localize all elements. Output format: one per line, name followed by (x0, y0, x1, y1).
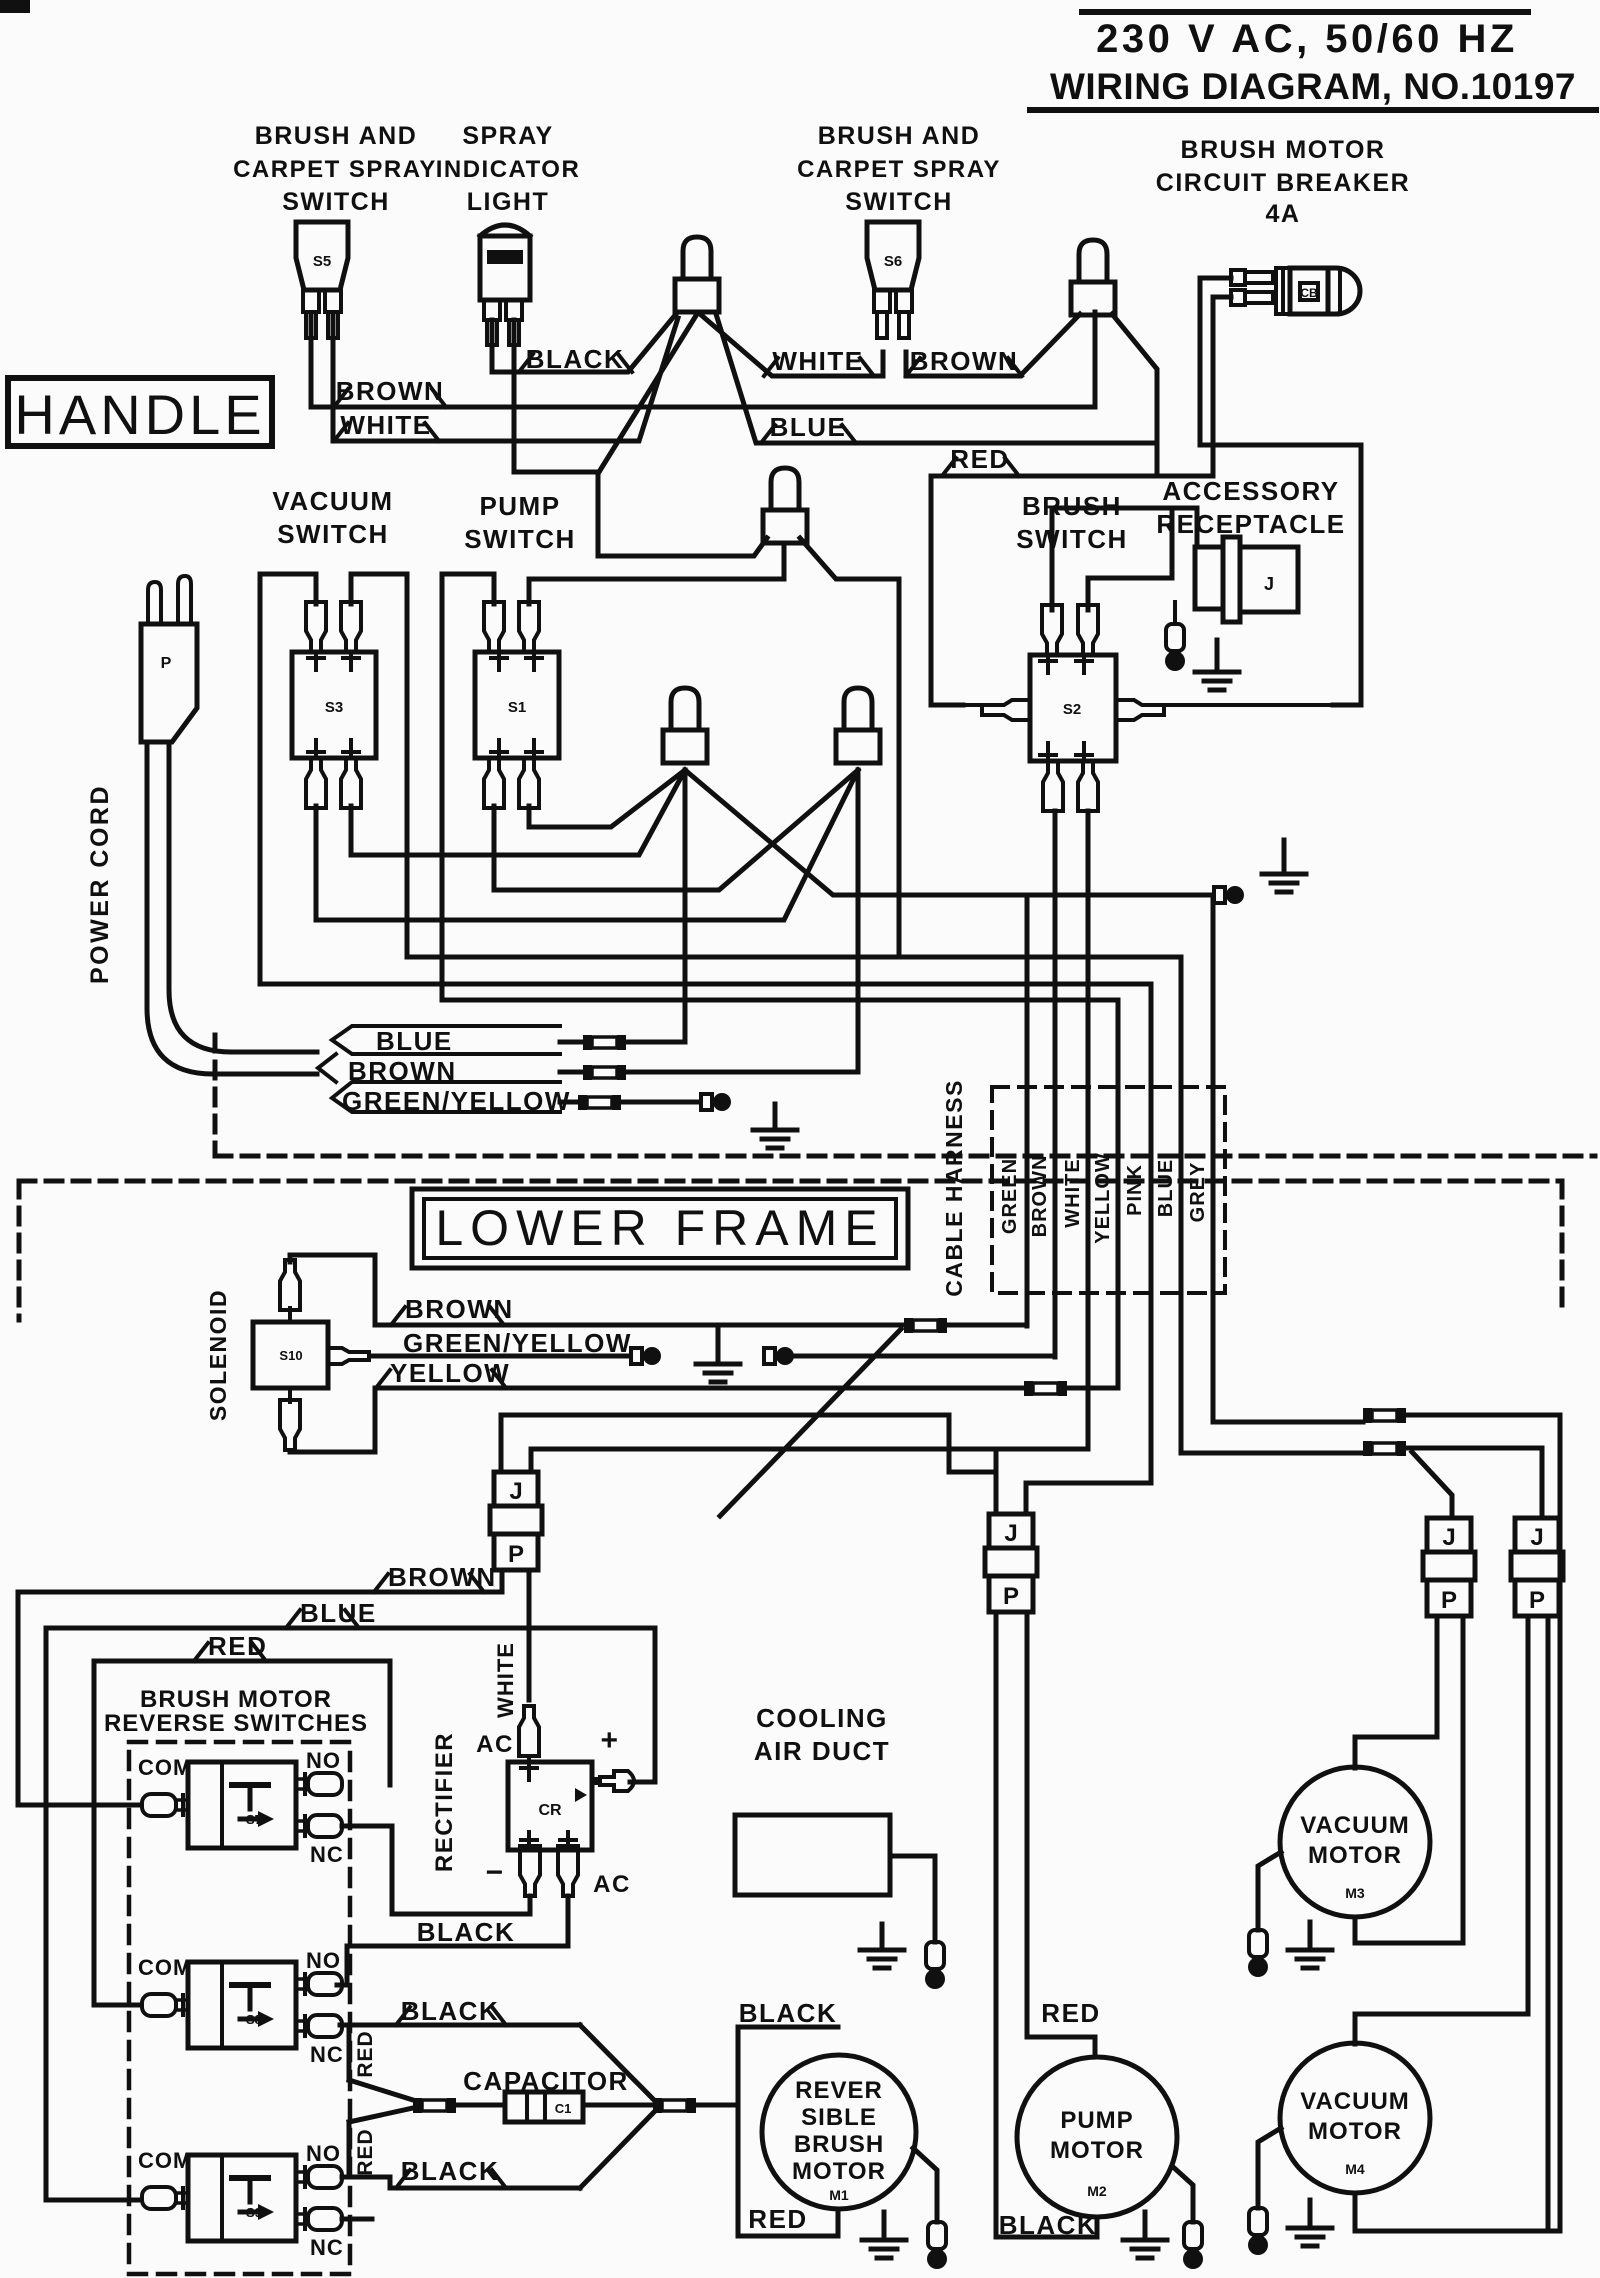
wire S2 bottom-left = BROWN harness (1053, 811, 1058, 1357)
bulb connector 4 (671, 688, 699, 730)
wire S9 NO black+red (342, 2177, 580, 2188)
label ticks BROWN left (334, 389, 348, 407)
svg-text:BROWN: BROWN (348, 1056, 457, 1086)
svg-text:J: J (1264, 574, 1274, 594)
wire M3 left lead (1258, 1852, 1281, 1930)
ground M4 (1308, 2200, 1313, 2228)
connector JP3 vacuum M3 (1427, 1518, 1471, 1552)
wire plus to blue (630, 1780, 655, 1785)
S1 bottom connectors (484, 758, 504, 808)
svg-text:J: J (1442, 1524, 1455, 1551)
svg-text:CB: CB (1300, 286, 1318, 300)
wire S2 bottom-right = WHITE harness (1086, 811, 1091, 1449)
svg-text:−: − (485, 1856, 504, 1889)
label ticks WHITE mid (764, 358, 778, 376)
svg-text:BLUE: BLUE (376, 1026, 453, 1056)
switch S8 reverse (188, 1962, 296, 2048)
wire brown rail (18, 1592, 502, 1805)
svg-text:BLUE: BLUE (770, 412, 847, 442)
svg-text:AC: AC (476, 1731, 514, 1758)
S3 bottom connectors (306, 758, 326, 808)
power plug P (141, 624, 197, 742)
switch S6 brush and carpet spray (867, 222, 919, 290)
svg-text:GREEN/YELLOW: GREEN/YELLOW (342, 1086, 571, 1116)
wire PINK vertical (1026, 984, 1151, 1514)
lug green/yellow (701, 1094, 712, 1110)
svg-text:BRUSH AND: BRUSH AND (818, 122, 981, 150)
wire JP2-P red down (1027, 1617, 1095, 2057)
svg-text:SOLENOID: SOLENOID (205, 1289, 231, 1421)
wire S1TL enclosure (442, 574, 1118, 1000)
wire black: indicator to bulb1 (492, 314, 676, 372)
svg-text:J: J (1530, 1524, 1543, 1551)
wire BLUE vertical (1181, 957, 1363, 1453)
wire M1 right lead (913, 2148, 937, 2222)
ground M1 (882, 2212, 887, 2240)
ground M2 (1143, 2212, 1148, 2240)
wire bus S3R-bulb4 (351, 770, 685, 855)
label ticks BROWN jp1 (374, 1574, 388, 1592)
svg-text:RED: RED (950, 444, 1009, 474)
wire bulb1 4th tap (599, 314, 697, 472)
switch S3 vacuum (292, 652, 376, 758)
wire bus S1R-bulb4 (529, 770, 685, 827)
lug on bus 895 (1214, 887, 1225, 903)
wire brown: S5 left to bulb2 base (311, 312, 1095, 407)
wire solenoid brown (290, 1255, 904, 1325)
svg-text:BLACK: BLACK (401, 1996, 500, 2026)
solenoid S10 box (253, 1322, 328, 1388)
svg-text:GREY: GREY (1187, 1162, 1209, 1223)
wire JP3-P right to M3 bottom (1355, 1616, 1463, 1943)
switch S9 reverse (188, 2155, 296, 2241)
svg-text:INDICATOR: INDICATOR (436, 156, 581, 183)
svg-text:BLUE: BLUE (1155, 1159, 1177, 1217)
connector JP4 vacuum M4 (1515, 1518, 1559, 1552)
wire S3TR enclosure (351, 574, 1181, 957)
svg-text:BLACK: BLACK (401, 2156, 500, 2186)
svg-text:RED: RED (208, 1631, 267, 1661)
lug green/yellow mid (631, 1348, 642, 1364)
title overline (1082, 9, 1528, 15)
svg-text:M3: M3 (1345, 1885, 1365, 1901)
switch S5 brush and carpet spray (296, 222, 348, 290)
wire duct (890, 1856, 935, 1942)
svg-text:BLACK: BLACK (417, 1917, 516, 1947)
wire JP1 right pin (531, 1449, 1088, 1472)
svg-text:S6: S6 (884, 253, 902, 270)
wire solenoid green/yellow (370, 1354, 630, 1359)
wire white: S5 right to bulb1 (333, 316, 678, 441)
svg-text:SIBLE: SIBLE (801, 2104, 877, 2131)
S1 top connectors (484, 602, 504, 652)
switch S7 reverse (188, 1762, 296, 1848)
svg-text:YELLOW: YELLOW (1092, 1152, 1114, 1244)
svg-text:230 V AC, 50/60 HZ: 230 V AC, 50/60 HZ (1096, 17, 1518, 61)
svg-text:WIRING DIAGRAM, NO.10197: WIRING DIAGRAM, NO.10197 (1050, 66, 1576, 107)
wire red to S7 NO (388, 1661, 393, 1785)
wire bulb3 right diag (800, 538, 899, 957)
capacitor C1 body (505, 2092, 583, 2122)
splice on brown (904, 1318, 913, 1333)
svg-text:RED: RED (748, 2204, 807, 2234)
svg-text:MOTOR: MOTOR (1308, 1842, 1402, 1869)
svg-text:CARPET SPRAY: CARPET SPRAY (797, 156, 1001, 183)
wire blue harness (560, 1040, 583, 1045)
dashed handle boundary vertical (213, 1035, 218, 1156)
motor M3 vacuum (1280, 1767, 1430, 1917)
splice cap left (413, 2098, 422, 2113)
svg-text:4A: 4A (1266, 200, 1301, 228)
svg-text:RED: RED (354, 2030, 377, 2077)
svg-text:J: J (1004, 1520, 1017, 1547)
bullet M1 (928, 2222, 946, 2249)
splice right upper (1363, 1408, 1372, 1423)
svg-text:BROWN: BROWN (336, 376, 445, 406)
wire white2: bulb1 to S6 left (700, 314, 883, 376)
wire M2 right lead (1172, 2166, 1193, 2222)
svg-text:P: P (1441, 1587, 1457, 1614)
dashed lower frame right (1560, 1181, 1565, 1310)
splice right lower (1363, 1441, 1372, 1456)
wire S2 right pin up (1088, 508, 1172, 610)
wire JP1-P white down (527, 1570, 532, 1700)
connector JP1 solenoid-line (494, 1472, 538, 1506)
svg-text:VACUUM: VACUUM (1300, 2088, 1410, 2115)
wire JP4-P left to M4 top (1355, 1616, 1528, 2044)
svg-text:AIR DUCT: AIR DUCT (754, 1736, 890, 1766)
bullet M4 (1249, 2208, 1267, 2235)
wire CB bottom to red junction (1157, 297, 1231, 476)
bulb connector 5 (844, 688, 872, 730)
wire YELLOW vertical (1116, 1000, 1121, 1387)
wire S9 NC stub (342, 2217, 372, 2222)
svg-text:SWITCH: SWITCH (1016, 524, 1128, 554)
svg-text:NC: NC (310, 1842, 344, 1867)
svg-text:AC: AC (593, 1871, 631, 1898)
svg-text:REVER: REVER (795, 2077, 883, 2104)
svg-text:BRUSH MOTOR: BRUSH MOTOR (1181, 136, 1386, 164)
svg-text:P: P (161, 655, 172, 672)
wire S1TR to bulb3 (529, 545, 784, 604)
ground M3 (1308, 1922, 1313, 1950)
wire bulb5 down to brown splice (856, 770, 861, 1072)
label ticks BLACK s9 (396, 2170, 410, 2188)
HANDLE box (8, 378, 272, 446)
label ticks BLACK top (519, 354, 533, 372)
circuit breaker CB (1231, 270, 1273, 285)
svg-text:REVERSE SWITCHES: REVERSE SWITCHES (104, 1710, 368, 1737)
svg-text:P: P (1003, 1583, 1019, 1610)
svg-text:VACUUM: VACUUM (272, 486, 393, 516)
wire blue rail (46, 1628, 655, 2200)
splice brown (583, 1065, 592, 1080)
wire M4 left lead (1258, 2128, 1281, 2208)
svg-text:WHITE: WHITE (1062, 1158, 1084, 1227)
bulb connector 2 (1079, 240, 1107, 282)
motor M1 reversible brush (762, 2055, 916, 2209)
splice green/yellow (578, 1095, 587, 1110)
svg-text:CIRCUIT BREAKER: CIRCUIT BREAKER (1156, 169, 1410, 197)
wire cap to M1 (697, 2103, 738, 2108)
svg-text:S10: S10 (279, 1348, 302, 1363)
svg-text:S2: S2 (1063, 701, 1081, 718)
svg-text:COM: COM (138, 1955, 192, 1980)
wire M1 staple (738, 2027, 838, 2105)
wire S8 NO to AC (337, 1946, 347, 1985)
wire red: bulb2 down to brush-switch box (931, 314, 1157, 705)
wire brown2: S6 right to bulb2 (906, 314, 1080, 376)
svg-text:PUMP: PUMP (1060, 2107, 1133, 2134)
ground floating right (1282, 840, 1287, 874)
wire blue to rectifier plus (653, 1628, 658, 1782)
svg-text:BROWN: BROWN (910, 346, 1019, 376)
ground harness (773, 1104, 778, 1130)
label ticks RED rail (194, 1643, 208, 1661)
svg-text:CARPET SPRAY: CARPET SPRAY (233, 156, 437, 183)
switch S1 pump (475, 652, 559, 758)
wire M2 bottom black (996, 2217, 1097, 2237)
diag from brown splice (720, 1329, 901, 1516)
svg-text:WHITE: WHITE (772, 346, 863, 376)
wire brown harness (560, 1070, 583, 1075)
solenoid bottom connector (280, 1400, 300, 1450)
wire CB top to S2 right spade (1200, 278, 1361, 705)
splice on yellow (1024, 1381, 1033, 1396)
cooling air duct box (735, 1815, 890, 1895)
svg-text:WHITE: WHITE (493, 1642, 518, 1718)
label ticks BLUE top (761, 425, 775, 443)
S3 top connectors (306, 602, 326, 652)
svg-text:M1: M1 (829, 2187, 849, 2203)
S2 right spade (1116, 700, 1164, 720)
svg-text:S3: S3 (325, 699, 343, 716)
solenoid right spade (328, 1348, 369, 1364)
svg-text:GREEN: GREEN (999, 1158, 1021, 1234)
svg-text:NO: NO (306, 2141, 341, 2166)
wire bulb4 diag to lug bus (685, 770, 1213, 895)
wire bulb4 down to blue splice (683, 770, 688, 1042)
svg-text:PINK: PINK (1124, 1164, 1146, 1216)
wire cap leads (455, 2103, 505, 2108)
solenoid top connector (280, 1260, 300, 1310)
wire S3TL enclosure (260, 574, 1151, 984)
svg-text:WHITE: WHITE (340, 410, 431, 440)
dashed harness label box (992, 1087, 1225, 1293)
splice blue (583, 1035, 592, 1050)
connector JP2 pump (989, 1514, 1033, 1548)
svg-text:SPRAY: SPRAY (462, 122, 553, 150)
wire JP1 left pin (501, 1415, 949, 1472)
svg-text:SWITCH: SWITCH (464, 524, 576, 554)
svg-text:COOLING: COOLING (756, 1703, 888, 1733)
wire bus S1L-bulb5 (494, 770, 858, 890)
wire JP1-P brown (500, 1570, 505, 1592)
svg-text:J: J (509, 1478, 522, 1505)
wire indicator right to bulb3 (514, 320, 767, 556)
S2 left spade (982, 700, 1030, 720)
svg-text:P: P (1529, 1587, 1545, 1614)
label ticks RED top (942, 458, 956, 476)
wire rectifier AC bottom (347, 1896, 568, 1946)
rectifier top connector (519, 1706, 539, 1756)
label ticks WHITE left (334, 423, 348, 441)
lug2 and wire right (764, 1348, 775, 1364)
wire S7 NC to rectifier minus (342, 1826, 530, 1914)
wire WHITE to JP2 jog (949, 1415, 996, 1472)
spray indicator light (480, 225, 530, 236)
svg-text:GREEN/YELLOW: GREEN/YELLOW (403, 1328, 632, 1358)
rectifier right spade (592, 1771, 634, 1791)
title underline (1030, 107, 1596, 113)
svg-text:COM: COM (138, 2148, 192, 2173)
wire JP3-P left to M3 top (1355, 1616, 1437, 1768)
wire GREY vertical (1213, 897, 1363, 1422)
svg-text:S1: S1 (508, 699, 526, 716)
dashed handle bottom (215, 1154, 1595, 1159)
wire splice1 to M4 bottom (1355, 1415, 1560, 2231)
LOWER FRAME box (412, 1189, 908, 1268)
svg-text:RECEPTACLE: RECEPTACLE (1156, 509, 1345, 539)
cord chevron outlines (332, 1026, 560, 1054)
svg-text:MOTOR: MOTOR (1050, 2137, 1144, 2164)
label ticks YELLOW solenoid (376, 1370, 390, 1388)
wire solenoid yellow (290, 1388, 1024, 1452)
switch S2 brush (1030, 655, 1116, 761)
svg-text:NO: NO (306, 1948, 341, 1973)
rectifier CR box (508, 1762, 592, 1850)
label ticks BROWN mid (906, 358, 920, 376)
svg-text:BROWN: BROWN (1029, 1155, 1051, 1238)
wire green/yellow harness (560, 1100, 578, 1105)
svg-text:BLUE: BLUE (300, 1598, 377, 1628)
svg-text:S5: S5 (313, 253, 331, 270)
svg-text:MOTOR: MOTOR (792, 2158, 886, 2185)
label ticks BROWN solenoid (391, 1307, 405, 1325)
wire JP2-P black up (994, 1617, 999, 2237)
svg-text:ACCESSORY: ACCESSORY (1162, 476, 1339, 506)
bulb connector 1 (683, 237, 711, 279)
wire receptacle tail (1173, 602, 1177, 624)
wire JP2 right pin (1024, 1483, 1029, 1514)
svg-text:POWER CORD: POWER CORD (86, 784, 114, 984)
dashed lower frame left (17, 1181, 22, 1320)
svg-text:LOWER FRAME: LOWER FRAME (435, 1200, 884, 1256)
S2 bottom connectors (1043, 761, 1063, 811)
ground tap on brown (716, 1327, 721, 1364)
svg-text:CABLE HARNESS: CABLE HARNESS (941, 1079, 967, 1297)
svg-text:PUMP: PUMP (479, 491, 560, 521)
svg-text:COM: COM (138, 1755, 192, 1780)
wire bus S3L-bulb5 (316, 770, 858, 920)
dashed lower frame top (19, 1179, 1562, 1184)
svg-text:BLACK: BLACK (739, 1998, 838, 2028)
svg-text:P: P (508, 1541, 524, 1568)
wire S8 NC black+red (340, 2023, 580, 2028)
dashed box reverse switches (129, 1742, 350, 2274)
svg-text:C1: C1 (555, 2101, 572, 2116)
splice cap right (653, 2098, 662, 2113)
svg-text:LIGHT: LIGHT (467, 188, 550, 216)
wire red rail (94, 1661, 390, 2005)
bullet duct (926, 1942, 944, 1969)
wire M4 bottom (1353, 2193, 1358, 2231)
motor M4 vacuum (1280, 2043, 1430, 2193)
accessory receptacle J (1195, 547, 1223, 609)
ground near receptacle (1215, 640, 1220, 672)
svg-text:MOTOR: MOTOR (1308, 2118, 1402, 2145)
wire S2 left pin to receptacle (1052, 508, 1197, 610)
svg-text:BRUSH AND: BRUSH AND (255, 122, 418, 150)
corner mark (0, 0, 30, 13)
power cord (147, 742, 317, 1074)
svg-text:NC: NC (310, 2042, 344, 2067)
svg-text:RECTIFIER: RECTIFIER (431, 1732, 458, 1872)
svg-text:BLACK: BLACK (526, 344, 625, 374)
bulb connector 3 (771, 468, 799, 510)
svg-text:VACUUM: VACUUM (1300, 1812, 1410, 1839)
svg-text:CR: CR (538, 1802, 562, 1819)
motor M2 pump (1017, 2057, 1177, 2217)
svg-text:SWITCH: SWITCH (282, 188, 390, 216)
svg-text:+: + (600, 1724, 619, 1757)
wire blue: bulb1 to right side (716, 314, 1157, 443)
wire GREEN vertical (1025, 895, 1030, 1326)
S2 top connectors (1042, 605, 1062, 655)
svg-text:M4: M4 (1345, 2161, 1365, 2177)
rectifier bottom connectors (520, 1846, 540, 1896)
wire splice2 branches (1407, 1448, 1542, 1518)
svg-text:SWITCH: SWITCH (277, 519, 389, 549)
svg-text:SWITCH: SWITCH (845, 188, 953, 216)
svg-text:M2: M2 (1087, 2183, 1107, 2199)
bullet M3 (1249, 1930, 1267, 1957)
wire JP4-P right down (1546, 1616, 1551, 2229)
svg-text:NO: NO (306, 1748, 341, 1773)
svg-text:NC: NC (310, 2235, 344, 2260)
svg-text:BRUSH MOTOR: BRUSH MOTOR (140, 1686, 332, 1713)
ground duct (880, 1924, 885, 1950)
receptacle ground lug (1166, 624, 1184, 651)
label ticks BLACK s8 (396, 2007, 410, 2025)
label ticks BLUE rail (286, 1610, 300, 1628)
svg-text:RED: RED (1041, 1998, 1100, 2028)
bullet M2 (1184, 2222, 1202, 2249)
svg-text:BRUSH: BRUSH (794, 2131, 884, 2158)
svg-text:RED: RED (354, 2128, 377, 2175)
svg-text:HANDLE: HANDLE (14, 383, 265, 446)
